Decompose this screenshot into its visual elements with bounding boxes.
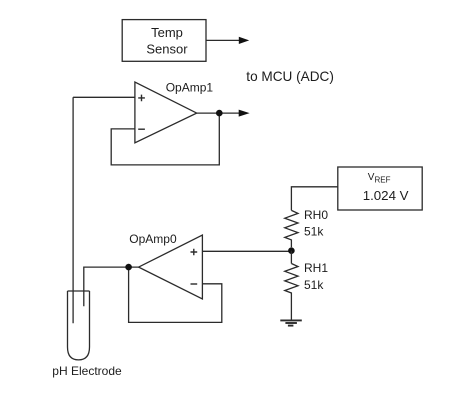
arrowhead: Temp Sensor output [239, 37, 249, 44]
node: divider junction dot [288, 247, 295, 254]
resistor RH0 zigzag [285, 210, 298, 247]
op-amp U1: minus sign [138, 128, 145, 130]
wire: VREF to resistor RH0 [291, 187, 337, 211]
resistor RH1 zigzag [285, 264, 298, 321]
wire: OpAmp1 feedback loop [111, 113, 219, 165]
node: OpAmp1 output junction dot [216, 110, 223, 117]
op-amp U0: OpAmp0 triangle (points left) [139, 235, 203, 299]
pH electrode tube [68, 291, 90, 360]
svg-text:pH Electrode: pH Electrode [52, 364, 122, 378]
op-amp U0: minus sign [191, 283, 198, 285]
block: VREF box [338, 167, 422, 210]
svg-text:51k: 51k [304, 225, 324, 239]
node: OpAmp0 output junction dot [125, 264, 132, 271]
op-amp U1: OpAmp1 triangle [135, 82, 197, 143]
svg-text:OpAmp1: OpAmp1 [166, 80, 214, 94]
ground symbol [280, 319, 302, 321]
wire: vertical down to pH electrode (left) [72, 97, 74, 323]
wire: OpAmp0 feedback loop [129, 267, 222, 322]
wire: OpAmp1 output [197, 112, 241, 114]
svg-text:Temp: Temp [151, 25, 183, 40]
wire: node to RH1 [290, 251, 292, 264]
svg-text:OpAmp0: OpAmp0 [129, 232, 177, 246]
op-amp U0: plus sign [191, 249, 198, 256]
svg-text:1.024 V: 1.024 V [363, 188, 409, 203]
wire: OpAmp0 + input from divider node [202, 250, 291, 252]
svg-text:RH1: RH1 [304, 261, 328, 275]
svg-text:Sensor: Sensor [146, 42, 188, 57]
svg-text:VREF: VREF [368, 172, 391, 185]
op-amp U1: plus sign [138, 95, 145, 102]
arrowhead: OpAmp1 output to MCU [239, 110, 250, 117]
svg-text:to MCU (ADC): to MCU (ADC) [246, 69, 334, 84]
block: Temp Sensor box [122, 20, 206, 62]
wire: OpAmp1 + input [73, 96, 135, 98]
wire: OpAmp0 output to electrode [84, 267, 139, 306]
wire: Temp Sensor output [206, 39, 240, 41]
svg-text:RH0: RH0 [304, 208, 328, 222]
svg-text:51k: 51k [304, 278, 324, 292]
